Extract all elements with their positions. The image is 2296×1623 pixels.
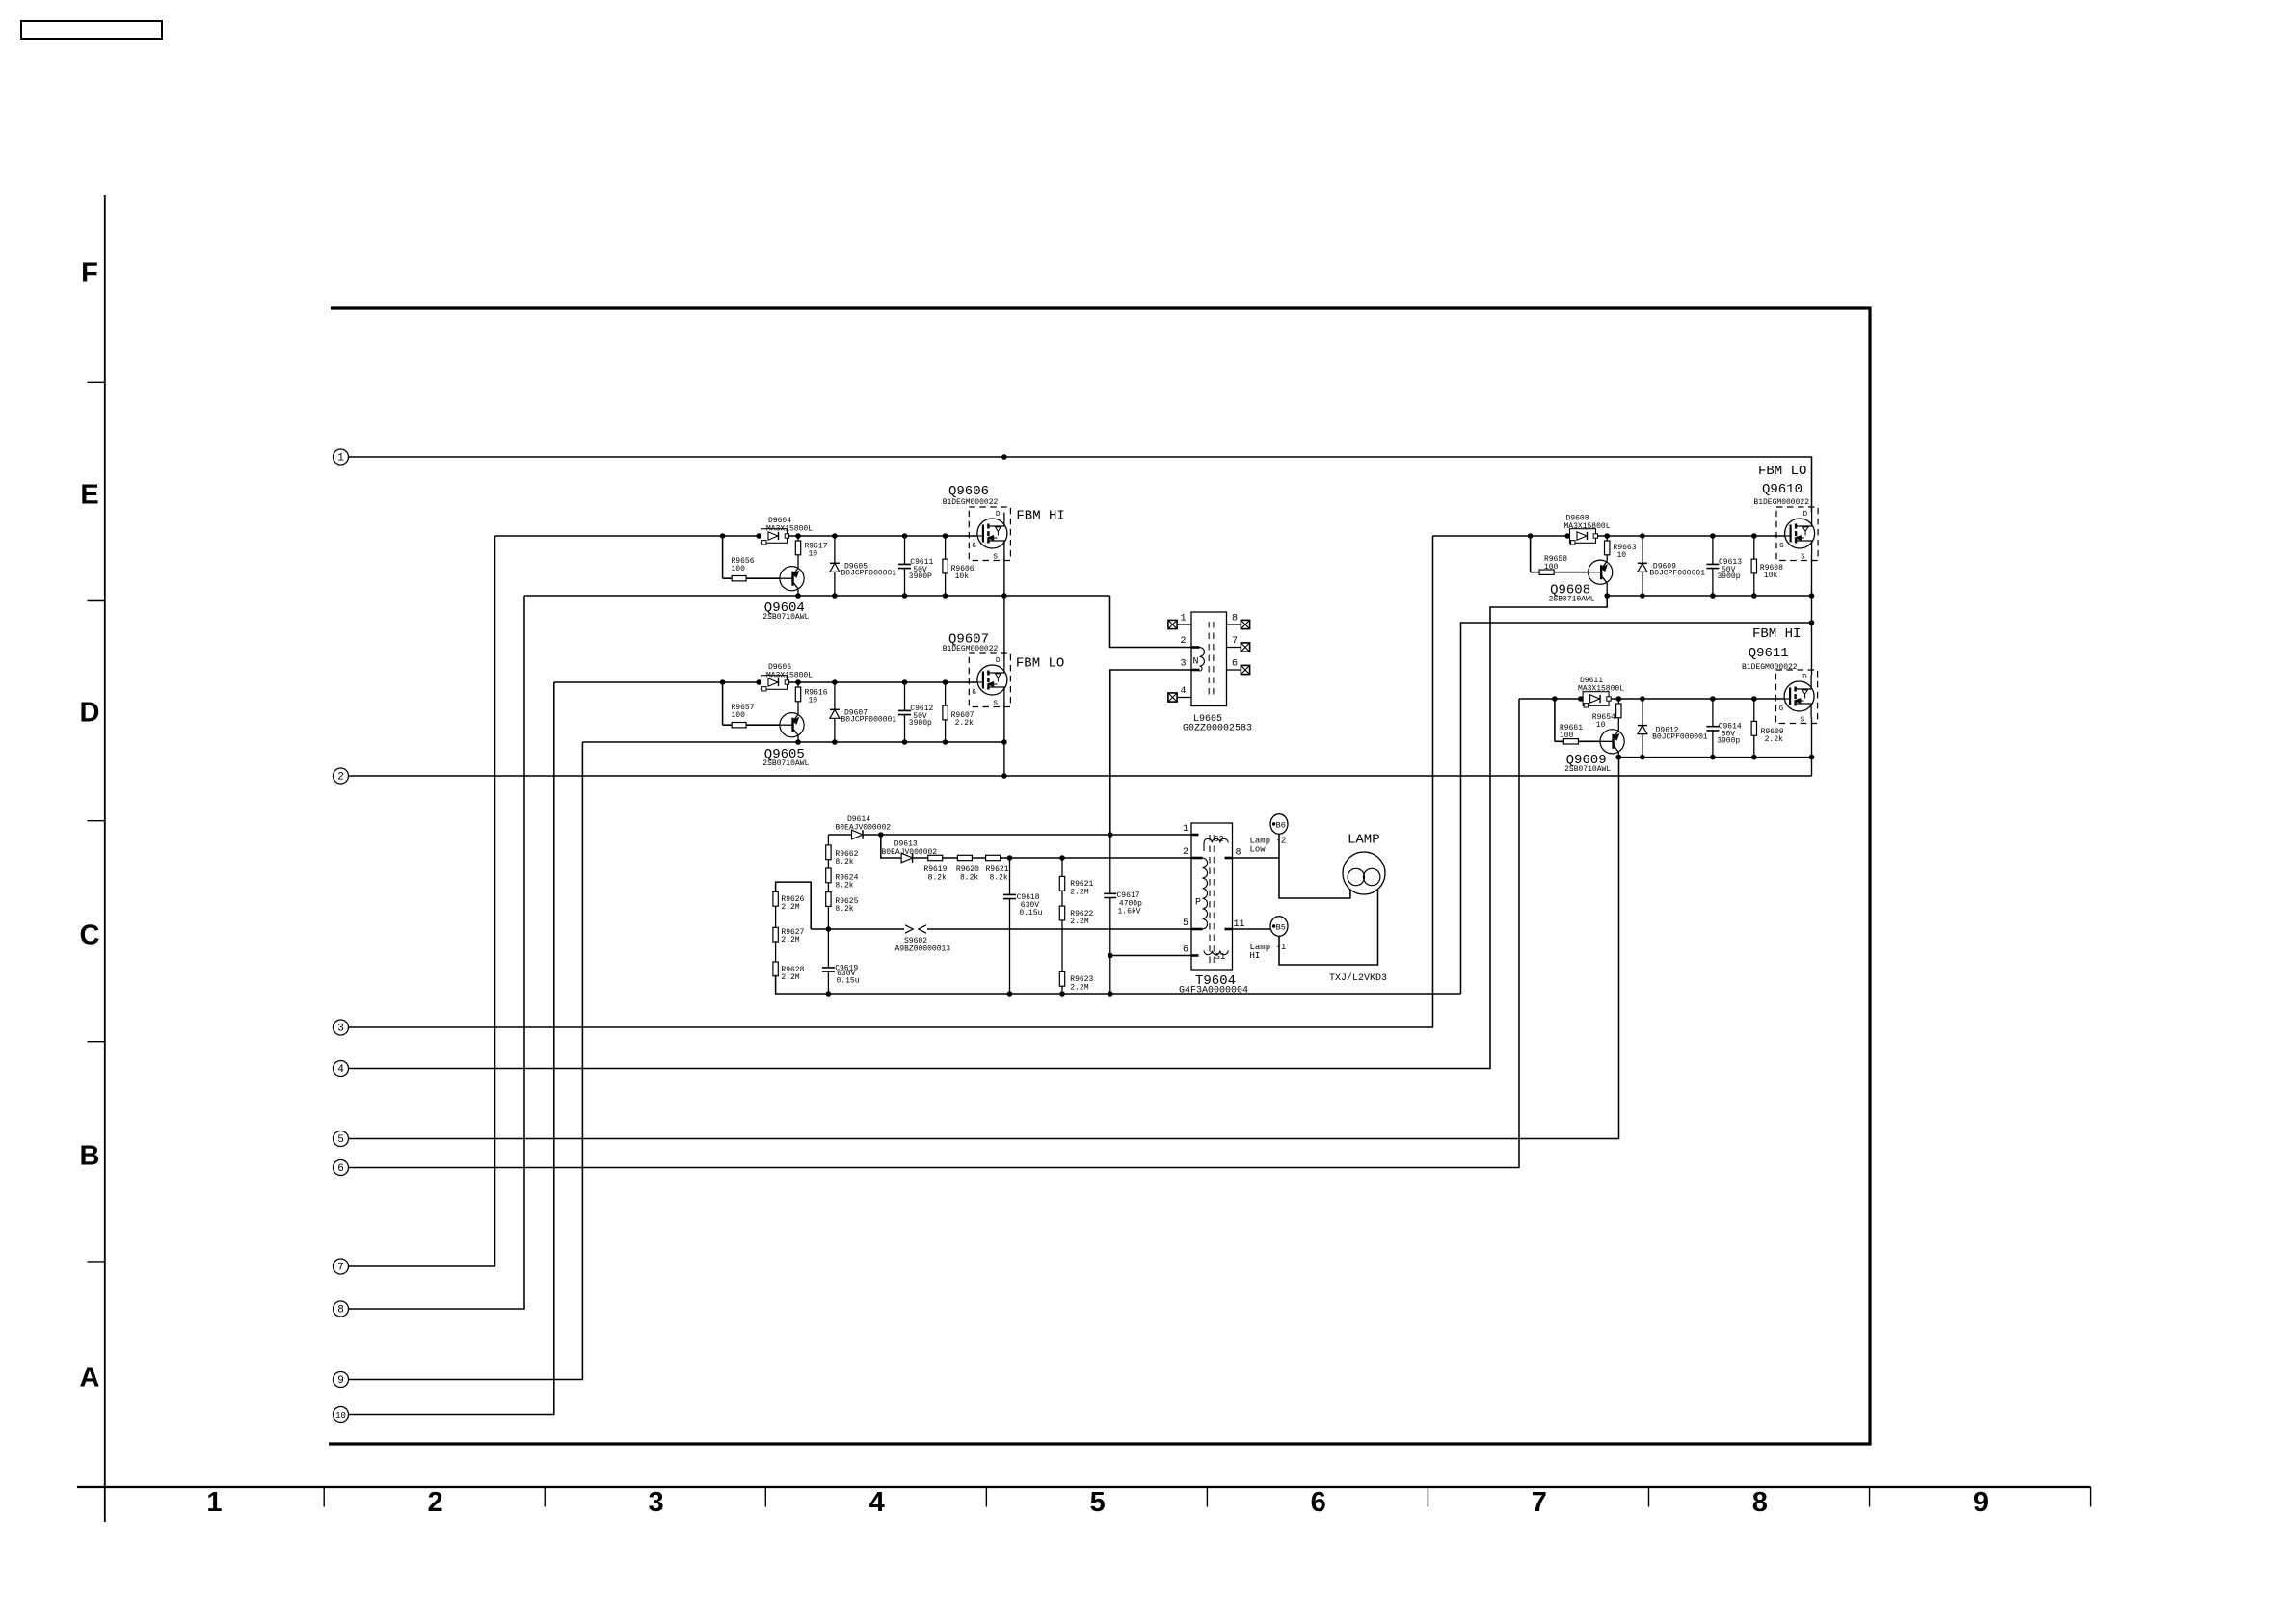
wire rail row LL <box>582 741 1004 743</box>
wire ballast bottom rail <box>776 975 1461 995</box>
wire gate row LR <box>1519 698 1785 700</box>
diode D9612 <box>1642 699 1643 758</box>
resistor R9620 <box>957 855 972 860</box>
svg-text:8.2k: 8.2k <box>835 858 853 866</box>
svg-text:9: 9 <box>1973 1487 1989 1518</box>
svg-text:D: D <box>1802 674 1807 681</box>
wire rail row LR <box>1618 757 1811 758</box>
L9605 winding N <box>1200 648 1205 672</box>
svg-text:2: 2 <box>427 1487 442 1518</box>
wire base branch UR <box>1530 536 1532 572</box>
title box <box>21 21 162 39</box>
svg-text:10k: 10k <box>1764 572 1778 580</box>
svg-text:10: 10 <box>809 697 818 705</box>
junction dots LR gate row <box>1552 696 1558 702</box>
L9605 pin 7 <box>1227 647 1241 649</box>
svg-text:E: E <box>80 480 98 511</box>
diode D9604 (dual diode pack) <box>761 529 789 545</box>
bottom ruler ticks <box>104 1487 106 1522</box>
resistor R9619 <box>928 855 943 860</box>
svg-text:B1DEGM000022: B1DEGM000022 <box>1753 498 1809 507</box>
resistor R9654 <box>1617 699 1619 731</box>
wire FBM mid link <box>1461 623 1812 994</box>
capacitor C9611 <box>904 536 906 596</box>
svg-text:2SB0710AWL: 2SB0710AWL <box>762 613 809 622</box>
svg-text:8: 8 <box>1236 848 1241 859</box>
transistor Q9608 <box>1589 560 1613 584</box>
svg-text:B0JCPF000001: B0JCPF000001 <box>1652 733 1708 742</box>
svg-text:D: D <box>996 657 1001 665</box>
wire base branch LL <box>722 682 724 725</box>
svg-text:8.2k: 8.2k <box>928 873 947 882</box>
svg-text:S: S <box>993 554 998 562</box>
svg-text:4: 4 <box>869 1487 885 1518</box>
resistor R9628 <box>775 941 777 963</box>
node 4 (circled net number) <box>334 1061 349 1077</box>
capacitor C9617 <box>1109 835 1111 994</box>
svg-text:8.2k: 8.2k <box>835 905 853 914</box>
wire Q9606 drain/source column <box>1003 555 1005 597</box>
svg-text:G0ZZ00002583: G0ZZ00002583 <box>1183 724 1252 734</box>
wire D9613 row (to T9604 pin2) <box>881 835 1191 858</box>
diode D9607 <box>834 682 836 742</box>
resistor R9627 <box>775 906 777 929</box>
svg-text:LAMP: LAMP <box>1348 833 1380 848</box>
resistor R9607 <box>945 682 947 742</box>
wire net6 <box>349 699 1520 1168</box>
svg-text:B6: B6 <box>1276 821 1286 831</box>
transistor Q9610 (MOSFET) <box>1776 507 1818 561</box>
svg-text:8.2k: 8.2k <box>835 882 853 891</box>
wire net4 <box>349 596 1608 1069</box>
svg-text:A9BZ00000013: A9BZ00000013 <box>895 945 951 953</box>
wire net5 <box>349 758 1619 1139</box>
svg-text:D: D <box>80 698 100 729</box>
capacitor C9613 <box>1712 536 1714 596</box>
node 1 (circled net number) <box>334 449 349 465</box>
node 8 (circled net number) <box>334 1301 349 1317</box>
svg-text:3900P: 3900P <box>909 572 932 581</box>
svg-text:8: 8 <box>337 1305 344 1317</box>
svg-text:C: C <box>80 920 100 951</box>
svg-text:S: S <box>1801 717 1805 725</box>
junction dots UR gate row <box>1528 533 1534 539</box>
svg-text:9: 9 <box>337 1375 344 1387</box>
svg-text:G: G <box>972 543 976 550</box>
wire net1 top rail <box>349 457 1812 513</box>
svg-text:B5: B5 <box>1276 923 1286 933</box>
svg-text:2.2M: 2.2M <box>781 973 799 982</box>
svg-text:MA3X15800L: MA3X15800L <box>1578 684 1624 693</box>
svg-text:2SB0710AWL: 2SB0710AWL <box>1549 596 1595 604</box>
svg-text:100: 100 <box>1560 732 1574 740</box>
resistor R9625 <box>827 883 829 929</box>
svg-text:100: 100 <box>732 711 746 720</box>
node 9 (circled net number) <box>334 1372 349 1388</box>
svg-text:P: P <box>1195 898 1201 909</box>
svg-text:B: B <box>80 1141 100 1172</box>
diode D9605 <box>834 536 836 596</box>
transistor Q9605 <box>780 713 804 737</box>
svg-text:B0JCPF000001: B0JCPF000001 <box>1649 570 1705 578</box>
svg-text:1: 1 <box>1183 824 1188 835</box>
svg-text:G: G <box>1779 543 1784 550</box>
svg-text:8.2k: 8.2k <box>990 873 1008 882</box>
svg-text:FBM LO: FBM LO <box>1016 656 1064 672</box>
capacitor C9619 <box>827 929 829 994</box>
svg-text:2.2M: 2.2M <box>781 936 799 945</box>
svg-text:8: 8 <box>1232 614 1238 625</box>
wire T9604 pin6 row <box>1110 955 1191 957</box>
resistor R9661 <box>1563 739 1578 744</box>
junction dots ballast <box>878 832 884 838</box>
wire lamp return <box>1279 890 1378 965</box>
diode D9608 (dual diode pack) <box>1570 529 1598 545</box>
svg-text:5: 5 <box>1183 918 1188 929</box>
wire 2.2M chain link <box>776 882 812 929</box>
svg-text:1: 1 <box>1180 614 1186 625</box>
svg-text:10: 10 <box>335 1411 346 1421</box>
diode D9611 (dual diode pack) <box>1583 692 1611 707</box>
svg-text:5: 5 <box>337 1134 344 1146</box>
svg-text:2.2M: 2.2M <box>1070 888 1088 896</box>
svg-text:2: 2 <box>1183 847 1188 858</box>
svg-text:A: A <box>80 1363 100 1394</box>
capacitor C9618 <box>1009 858 1011 994</box>
svg-text:G4F3A0000004: G4F3A0000004 <box>1179 986 1248 997</box>
terminal B6 <box>1270 814 1288 835</box>
resistor R9657 <box>732 723 746 728</box>
L9605 pin 4 <box>1177 697 1191 699</box>
resistor R9623 <box>1059 971 1064 986</box>
svg-text:G: G <box>972 689 976 697</box>
svg-text:B0JCPF000001: B0JCPF000001 <box>841 570 897 578</box>
schematic border frame <box>329 308 1870 1444</box>
svg-text:B0EAJV000002: B0EAJV000002 <box>836 824 892 833</box>
wire L9605 pin3 to transformer primary node <box>1110 670 1191 835</box>
svg-text:HI: HI <box>1250 951 1261 961</box>
svg-text:2: 2 <box>1180 636 1186 647</box>
T9604 secondary winding S2 <box>1204 838 1228 842</box>
svg-text:MA3X15800L: MA3X15800L <box>1564 522 1611 531</box>
svg-text:Q9611: Q9611 <box>1749 646 1789 661</box>
svg-text:G: G <box>1779 705 1784 713</box>
bottom ruler line <box>77 1486 2091 1488</box>
svg-text:B1DEGM000022: B1DEGM000022 <box>1742 663 1798 672</box>
svg-text:2.2k: 2.2k <box>1765 735 1783 744</box>
resistor R9622 <box>1059 906 1064 920</box>
resistor R9624 <box>826 868 831 883</box>
svg-text:2.2M: 2.2M <box>781 903 799 912</box>
svg-text:0.15u: 0.15u <box>1019 909 1042 918</box>
L9605 pin 1 <box>1177 624 1191 625</box>
resistor R9617 <box>797 536 799 568</box>
resistor R9616 <box>797 682 799 714</box>
T9604 core lines <box>1209 835 1211 964</box>
svg-text:1: 1 <box>337 453 344 465</box>
diode D9609 <box>1642 536 1643 596</box>
svg-text:10k: 10k <box>955 572 970 581</box>
svg-text:3900p: 3900p <box>1718 572 1741 581</box>
svg-text:S1: S1 <box>1215 952 1226 962</box>
svg-text:N: N <box>1193 657 1199 668</box>
resistor R9606 <box>945 536 947 596</box>
svg-text:F: F <box>81 258 98 289</box>
svg-text:MA3X15800L: MA3X15800L <box>766 671 813 679</box>
transistor Q9609 <box>1600 730 1624 754</box>
wire rail1 to L9605 pin2 <box>1110 596 1192 648</box>
wire spark-gap row (to T9604 pin5) <box>811 928 1191 930</box>
svg-text:6: 6 <box>1232 659 1238 670</box>
resistor R9656 <box>732 576 746 581</box>
svg-text:B1DEGM000022: B1DEGM000022 <box>943 498 999 507</box>
junction dots LL rail row <box>795 739 801 745</box>
svg-text:3900p: 3900p <box>1717 737 1740 746</box>
svg-text:D: D <box>1803 511 1808 519</box>
wire rail row UL <box>524 595 1110 597</box>
wire base branch LR <box>1554 699 1556 741</box>
wire Q9611 source column to net2 <box>1811 718 1813 758</box>
svg-text:7: 7 <box>1232 636 1238 647</box>
junction dots UL rail row <box>795 593 801 599</box>
svg-text:4: 4 <box>337 1064 344 1076</box>
node 7 (circled net number) <box>334 1259 349 1274</box>
svg-text:Q9606: Q9606 <box>948 484 989 499</box>
svg-text:FBM HI: FBM HI <box>1752 626 1801 642</box>
svg-text:2.2M: 2.2M <box>1070 983 1088 992</box>
L9605 core lines <box>1208 622 1210 699</box>
svg-text:D: D <box>996 511 1001 519</box>
svg-text:FBM HI: FBM HI <box>1016 509 1064 524</box>
svg-text:2.2M: 2.2M <box>1070 918 1088 926</box>
junction dots UL gate row <box>720 533 726 539</box>
node 5 (circled net number) <box>334 1131 349 1147</box>
svg-text:5: 5 <box>1090 1487 1106 1518</box>
wire T9604 pin8 to lamp <box>1233 857 1280 859</box>
T9604 pin ticks <box>1191 834 1199 837</box>
left ruler line <box>104 195 106 1522</box>
svg-text:2: 2 <box>337 772 344 784</box>
wire net2 bottom return <box>349 775 1812 777</box>
svg-text:MA3X15800L: MA3X15800L <box>766 524 813 533</box>
svg-text:Low: Low <box>1250 845 1267 855</box>
svg-text:100: 100 <box>1544 563 1559 572</box>
svg-text:3: 3 <box>649 1487 664 1518</box>
junction dots UR rail row <box>1604 593 1610 599</box>
wire net9 <box>349 742 583 1380</box>
wire ballast top row (to T9604 pin1) <box>828 834 1191 836</box>
transformer T9604 <box>1191 823 1233 970</box>
spark gap S9602 <box>904 925 927 933</box>
wire T9604 pin11 to B5 <box>1233 928 1271 930</box>
svg-text:2SB0710AWL: 2SB0710AWL <box>1564 765 1611 774</box>
capacitor C9614 <box>1712 699 1714 758</box>
wire net3 <box>349 536 1433 1027</box>
resistor R9621b 2.2M <box>1061 858 1063 994</box>
svg-text:6: 6 <box>337 1163 344 1175</box>
T9604 primary winding P <box>1203 858 1208 929</box>
wire net10 <box>349 682 554 1415</box>
resistor R9658 <box>1539 570 1554 574</box>
svg-text:Q9610: Q9610 <box>1762 482 1802 497</box>
svg-text:8: 8 <box>1752 1487 1768 1518</box>
junction dots LR rail row <box>1616 755 1622 760</box>
transistor Q9604 <box>780 567 804 591</box>
svg-text:S: S <box>1801 554 1805 562</box>
node 6 (circled net number) <box>334 1160 349 1176</box>
connector L9605 <box>1191 612 1227 706</box>
svg-text:6: 6 <box>1311 1487 1326 1518</box>
svg-text:7: 7 <box>337 1263 344 1274</box>
wire rail row UR <box>1607 595 1811 597</box>
wire base branch UL <box>722 536 724 578</box>
resistor R9621 <box>986 855 1001 860</box>
svg-text:2.2k: 2.2k <box>955 719 974 728</box>
svg-text:3900p: 3900p <box>909 719 932 728</box>
wire gate row UR <box>1433 535 1785 537</box>
resistor R9608 <box>1753 536 1755 596</box>
wire Q9610 drain/source column <box>1811 555 1813 597</box>
svg-text:10: 10 <box>1617 551 1627 560</box>
terminal B5 <box>1270 917 1288 937</box>
lamp symbol <box>1343 852 1385 894</box>
diode D9614 <box>852 830 864 839</box>
resistor R9626 <box>773 891 778 906</box>
wire Q9607 source column to net2 <box>1003 702 1005 743</box>
node 10 (circled net number) <box>334 1407 349 1423</box>
svg-text:2SB0710AWL: 2SB0710AWL <box>762 759 809 768</box>
diode D9606 (dual diode pack) <box>761 676 789 691</box>
svg-text:3: 3 <box>337 1024 344 1035</box>
svg-text:7: 7 <box>1532 1487 1547 1518</box>
svg-text:S: S <box>993 701 998 708</box>
svg-text:S2: S2 <box>1214 835 1224 844</box>
svg-text:4: 4 <box>1180 686 1186 697</box>
svg-text:100: 100 <box>732 565 746 573</box>
svg-text:1: 1 <box>206 1487 222 1518</box>
svg-text:3: 3 <box>1180 659 1186 670</box>
resistor R9663 <box>1606 536 1608 562</box>
L9605 pin 6 <box>1227 669 1241 671</box>
svg-text:B1DEGM000022: B1DEGM000022 <box>943 645 999 653</box>
svg-text:8.2k: 8.2k <box>960 873 978 882</box>
junction dots LL gate row <box>720 679 726 685</box>
wire net8 <box>349 596 525 1309</box>
wire net7 <box>349 536 495 1266</box>
svg-text:10: 10 <box>809 550 818 559</box>
T9604 secondary winding S1 <box>1204 951 1228 955</box>
resistor R9662 <box>827 835 829 870</box>
wire gate row LL <box>554 681 977 683</box>
svg-text:FBM LO: FBM LO <box>1758 464 1806 479</box>
svg-text:6: 6 <box>1183 945 1188 956</box>
svg-text:0.15u: 0.15u <box>837 977 860 986</box>
node 2 (circled net number) <box>334 768 349 784</box>
transistor Q9607 (MOSFET) <box>969 653 1010 707</box>
svg-text:1.6kV: 1.6kV <box>1118 908 1141 917</box>
L9605 pin 8 <box>1227 624 1241 625</box>
left ruler ticks <box>88 381 105 383</box>
svg-text:10: 10 <box>1596 721 1606 730</box>
svg-text:TXJ/L2VKD3: TXJ/L2VKD3 <box>1329 972 1387 984</box>
capacitor C9612 <box>904 682 906 742</box>
wire gate row UL <box>495 535 977 537</box>
transistor Q9611 (MOSFET) <box>1776 670 1818 724</box>
transistor Q9606 (MOSFET) <box>969 507 1010 561</box>
node 3 (circled net number) <box>334 1020 349 1035</box>
resistor R9609 <box>1753 699 1755 758</box>
diode D9613 <box>901 853 913 863</box>
svg-text:B0JCPF000001: B0JCPF000001 <box>841 716 897 725</box>
